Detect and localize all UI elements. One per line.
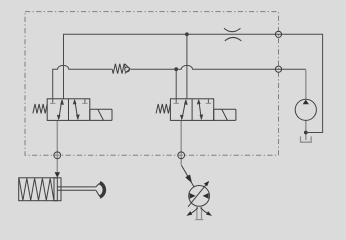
vacuum unit circle bbox=[189, 186, 210, 207]
wire: gray drop valve V2 to coupling bbox=[180, 120, 182, 164]
wire: gray drop valve V1 to cylinder bbox=[56, 120, 58, 172]
pump P1 circle bbox=[295, 99, 316, 120]
junction dot wire2/V2 bbox=[174, 67, 178, 71]
feed line to vacuum unit bbox=[181, 165, 193, 186]
valve V1 left box flow arrow bbox=[57, 99, 64, 120]
enclosure dash-dot border bbox=[25, 12, 279, 156]
pump P1 triangle bbox=[303, 100, 309, 105]
valve V1 blocked port right box bbox=[82, 99, 87, 104]
check valve CV1 spring bbox=[112, 64, 125, 74]
valve V2 return spring bbox=[156, 104, 170, 113]
wire 2: from V1 port1 across with hops to pump top bbox=[53, 65, 306, 98]
tank T1 bbox=[301, 136, 312, 142]
valve V2 body bbox=[170, 99, 213, 121]
valve V2 right box flow arrow bbox=[197, 99, 203, 120]
valve V2 solenoid bbox=[214, 109, 236, 120]
coupling circle top right bbox=[275, 31, 281, 37]
coupling circle bottom mid bbox=[178, 152, 185, 159]
vacuum unit left triangle bbox=[190, 193, 196, 199]
cylinder C1 rod bbox=[57, 187, 96, 190]
valve V1 body bbox=[47, 99, 90, 121]
vacuum unit variable arrow bbox=[188, 181, 209, 207]
hose symbol arcs on wire1 bbox=[224, 28, 241, 41]
clamp crescent bbox=[100, 183, 105, 197]
coupling circle bottom left bbox=[54, 152, 61, 159]
valve V2 left box flow arrow bbox=[180, 99, 188, 120]
cylinder C1 piston bbox=[54, 178, 57, 201]
exhaust arc left bbox=[186, 208, 198, 216]
clamp connector links bbox=[96, 183, 99, 196]
vacuum unit right triangle bbox=[203, 193, 209, 199]
valve V1 right box flow arrow bbox=[73, 99, 80, 120]
valve V1 return spring bbox=[33, 104, 47, 113]
cylinder C1 body bbox=[19, 178, 61, 201]
valve V1 blocked port left box bbox=[50, 99, 55, 104]
feed line arrowhead bbox=[186, 175, 191, 182]
wire: gray pump lower to tank bbox=[305, 120, 307, 140]
wire 1 top: riser from V1 port2, across top, down right side to pump bottom bbox=[64, 34, 323, 132]
cylinder C1 spring bbox=[19, 178, 54, 200]
wire: gray pump feed upper bbox=[305, 70, 307, 100]
valve V2 blocked port right box bbox=[206, 99, 211, 104]
vacuum unit neck bbox=[195, 206, 203, 219]
valve V1 solenoid bbox=[90, 109, 112, 120]
coupling circle mid right bbox=[275, 66, 281, 72]
wire: riser valve V2 port1 bbox=[175, 69, 177, 99]
check valve CV1 seat and ball bbox=[125, 64, 130, 74]
junction dot wire1/V2 bbox=[185, 32, 189, 36]
cylinder arrow into port bbox=[55, 172, 60, 177]
exhaust arc right bbox=[201, 208, 213, 216]
wire: riser valve V2 port2 bbox=[186, 34, 188, 99]
valve V2 blocked port left box bbox=[174, 99, 179, 104]
junction dot pump bottom bbox=[304, 131, 308, 135]
